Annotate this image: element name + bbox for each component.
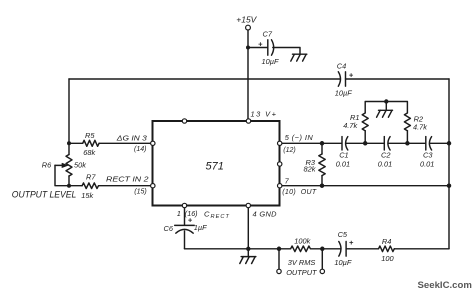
svg-text:C4: C4: [337, 61, 346, 70]
svg-text:4.7k: 4.7k: [343, 121, 357, 130]
svg-text:RECT: RECT: [211, 214, 230, 220]
svg-text:1: 1: [177, 209, 181, 218]
svg-text:3V RMS: 3V RMS: [288, 258, 316, 267]
svg-text:ΔG IN 3: ΔG IN 3: [116, 133, 148, 142]
svg-text:10µF: 10µF: [262, 57, 279, 66]
svg-text:(12): (12): [283, 147, 295, 154]
svg-text:1µF: 1µF: [194, 223, 207, 232]
svg-text:OUTPUT LEVEL: OUTPUT LEVEL: [12, 189, 77, 199]
svg-text:+: +: [258, 39, 263, 48]
svg-text:68k: 68k: [83, 148, 95, 157]
svg-text:4 GND: 4 GND: [253, 210, 278, 219]
svg-text:+: +: [349, 238, 354, 247]
svg-text:571: 571: [206, 161, 224, 173]
svg-text:13 V+: 13 V+: [251, 110, 277, 119]
svg-text:RECT IN 2: RECT IN 2: [106, 175, 149, 184]
svg-text:C2: C2: [381, 151, 390, 160]
svg-text:7: 7: [285, 176, 290, 185]
svg-text:+: +: [188, 215, 193, 224]
svg-text:R5: R5: [85, 131, 95, 140]
svg-text:R7: R7: [86, 173, 96, 182]
svg-text:OUTPUT: OUTPUT: [286, 268, 317, 277]
svg-text:+15V: +15V: [236, 14, 257, 24]
svg-text:(15): (15): [134, 189, 146, 196]
svg-text:10µF: 10µF: [335, 89, 352, 98]
svg-text:R6: R6: [42, 161, 52, 170]
svg-text:(14): (14): [134, 146, 146, 153]
svg-text:0.01: 0.01: [336, 160, 350, 169]
svg-text:C7: C7: [263, 30, 273, 39]
svg-text:(10) OUT: (10) OUT: [282, 189, 317, 196]
svg-text:82k: 82k: [304, 165, 316, 174]
svg-text:15k: 15k: [81, 191, 93, 200]
svg-text:C5: C5: [338, 230, 348, 239]
svg-text:C6: C6: [164, 224, 174, 233]
svg-text:10µF: 10µF: [334, 258, 351, 267]
svg-text:100k: 100k: [294, 236, 310, 245]
svg-text:0.01: 0.01: [420, 160, 434, 169]
svg-text:0.01: 0.01: [378, 160, 392, 169]
svg-text:100: 100: [381, 254, 394, 263]
svg-text:R4: R4: [382, 237, 391, 246]
svg-text:+: +: [349, 70, 354, 79]
svg-text:C1: C1: [339, 151, 348, 160]
svg-text:SeekIC.com: SeekIC.com: [418, 280, 472, 291]
svg-text:50k: 50k: [74, 161, 86, 170]
svg-text:C3: C3: [423, 151, 433, 160]
svg-text:4.7k: 4.7k: [413, 122, 427, 131]
svg-text:C: C: [204, 210, 210, 219]
svg-text:5 (−) IN: 5 (−) IN: [285, 133, 314, 142]
